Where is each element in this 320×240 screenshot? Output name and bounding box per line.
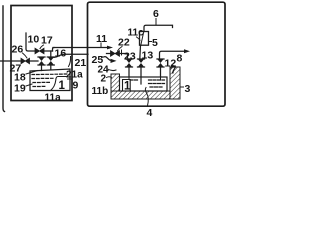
valve 17 bowtie <box>35 48 44 54</box>
pipe 25 wavy continuation <box>104 57 110 61</box>
leader 7 <box>171 66 173 69</box>
wire valve to hourglass V1 <box>30 60 39 62</box>
leader 4 curve <box>145 88 148 106</box>
arrowhead pipe 25 <box>111 59 117 63</box>
dip tube R2 lower part white backing <box>140 78 142 84</box>
leader 9 tick <box>68 78 73 80</box>
leader 21a <box>69 57 71 67</box>
svg-text:11: 11 <box>96 33 107 45</box>
leader 1 curve in tank <box>51 77 67 91</box>
arrowhead outlet 8 <box>184 49 190 53</box>
pipe 21 lower line <box>54 54 88 57</box>
leader 24 <box>108 69 117 71</box>
leader 26 <box>23 53 28 58</box>
svg-text:21: 21 <box>75 57 87 69</box>
svg-text:11b: 11b <box>92 86 109 97</box>
hourglass valve R1 <box>126 59 133 67</box>
tank liquid dashes <box>32 74 67 87</box>
svg-text:6: 6 <box>153 8 159 20</box>
wire valve22 stubs <box>107 54 128 58</box>
tank 11a outline <box>30 69 70 91</box>
svg-text:13: 13 <box>142 50 154 62</box>
svg-text:10: 10 <box>28 34 40 46</box>
wire R3 to tank <box>160 67 162 78</box>
arrowhead pipe 11 <box>107 46 113 50</box>
component 5 box <box>140 32 149 46</box>
pipe 6 from box5 <box>144 25 173 31</box>
leader 6 tick <box>155 19 157 26</box>
svg-text:23: 23 <box>124 51 136 63</box>
svg-text:11a: 11a <box>45 93 62 104</box>
wire R3 up to outlet 8 <box>160 51 185 59</box>
pipe through box5 <box>141 32 144 46</box>
svg-text:7: 7 <box>171 65 177 77</box>
leader 18 <box>26 71 38 75</box>
wire V1 to tank <box>41 65 43 71</box>
valve 26/27 bowtie <box>21 58 30 64</box>
leader 11 tick <box>100 43 102 47</box>
tank 1' liquid dashes <box>130 80 165 87</box>
leader 2 dash <box>107 76 112 79</box>
svg-text:4: 4 <box>147 107 153 119</box>
pipe 11 main line <box>53 47 107 49</box>
leader 19 <box>26 84 32 86</box>
wire R1 to tank <box>128 67 130 78</box>
pipe 10 vertical <box>26 33 35 51</box>
svg-text:2: 2 <box>101 74 107 85</box>
wire riser corner to main line 11 <box>53 48 55 52</box>
wire box5 to R2 <box>139 45 142 59</box>
wire feed hourglass V2 <box>50 51 52 57</box>
svg-text:8: 8 <box>177 53 183 65</box>
dash to 5 <box>149 41 152 43</box>
svg-text:3: 3 <box>185 83 191 95</box>
crucible box right tank <box>123 80 131 92</box>
enclosure box right unit <box>88 2 226 106</box>
svg-text:9: 9 <box>73 80 79 92</box>
wire V2 to tank <box>50 65 52 70</box>
hourglass valve V1 <box>38 57 45 65</box>
vessel 2 right wall hatched <box>170 67 180 99</box>
enclosure box left unit <box>11 6 72 101</box>
wires R1 R3 stubs into tank <box>129 77 161 80</box>
svg-text:1: 1 <box>59 80 66 92</box>
left page border line <box>3 6 5 112</box>
vessel 2 left wall hatched <box>111 74 120 99</box>
valve 22 bowtie <box>111 51 120 57</box>
svg-text:17: 17 <box>41 35 53 47</box>
svg-text:26: 26 <box>12 44 24 56</box>
leader 17 <box>40 45 44 49</box>
hourglass valve R2 <box>138 59 145 67</box>
leader 25 <box>102 56 105 59</box>
svg-text:5: 5 <box>152 37 158 49</box>
leader 3 dash <box>180 86 184 88</box>
svg-text:16: 16 <box>55 48 67 60</box>
leader 11c <box>137 37 141 40</box>
wire valve17 to riser <box>44 50 53 52</box>
hourglass valve R3 <box>157 59 164 67</box>
tank 1' inner outline <box>120 77 168 91</box>
dip tube R2 into tank <box>141 67 144 87</box>
svg-text:11c: 11c <box>128 28 145 39</box>
leader 23 tick <box>121 50 123 55</box>
hourglass valve V2 <box>47 57 54 65</box>
svg-text:1: 1 <box>124 81 131 93</box>
svg-text:19: 19 <box>14 83 26 95</box>
vessel 2 bottom wall hatched <box>111 91 180 99</box>
pipe 27 inlet <box>1 60 21 62</box>
leader 22 <box>118 47 123 52</box>
